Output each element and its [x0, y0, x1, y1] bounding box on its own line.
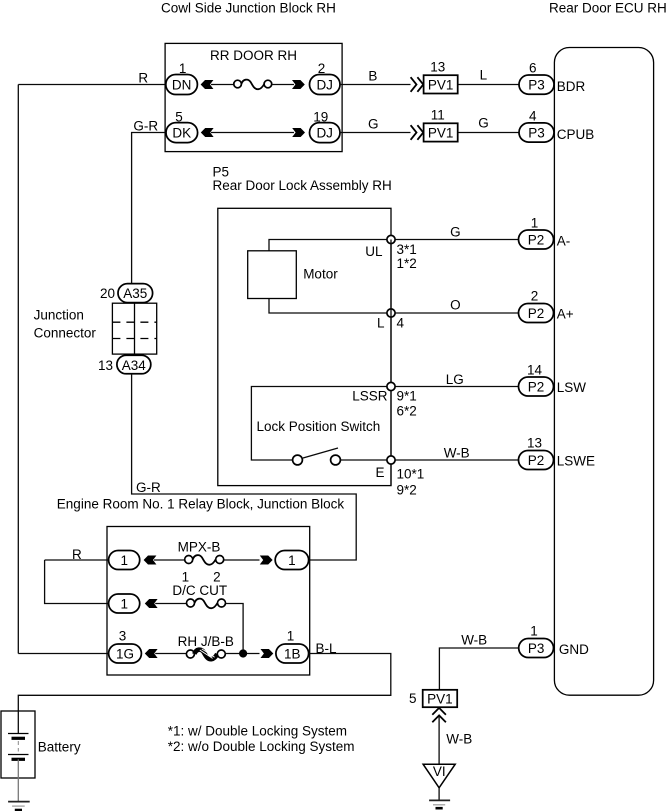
wire MPX-B left segment: [154, 559, 185, 561]
svg-text:6*2: 6*2: [397, 404, 417, 419]
connector DK: [166, 123, 198, 143]
wire DJ19 to PV1 (G): [340, 132, 411, 134]
svg-text:1: 1: [288, 553, 296, 568]
svg-text:P3: P3: [528, 126, 545, 141]
block P5 Rear Door Lock Assembly outline: [218, 208, 391, 485]
wire into MPX-B row from left: [45, 559, 109, 561]
svg-text:P5: P5: [213, 164, 230, 179]
wire DK to DJ row2: [211, 132, 294, 134]
battery plate thick 1: [12, 737, 26, 740]
svg-text:9*2: 9*2: [397, 483, 417, 498]
battery dashed center: [17, 741, 19, 752]
node L: [387, 309, 395, 317]
wire UL to P2 (G): [391, 239, 519, 241]
connector 1G: [109, 644, 142, 663]
battery top lead: [17, 711, 19, 734]
connector 1 MPX-B right: [275, 551, 308, 570]
connector DJ pin19: [310, 123, 341, 143]
svg-text:1: 1: [120, 553, 128, 568]
wire R loop vertical: [45, 560, 109, 604]
wire P5 right edge vertical: [390, 240, 392, 486]
fuse circle left D/C CUT: [187, 599, 195, 607]
svg-text:1*2: 1*2: [397, 256, 417, 271]
svg-text:DJ: DJ: [316, 126, 333, 141]
junction connector dashed row2: [112, 338, 156, 340]
svg-text:Junction: Junction: [34, 307, 84, 322]
svg-text:W-B: W-B: [444, 446, 470, 461]
fusible link white stripe 2: [202, 649, 215, 657]
wire W-B from P3 GND to PV1: [439, 648, 518, 690]
wire PV1 to P3 (G): [458, 132, 519, 134]
wire fusible link to junction dot: [225, 653, 259, 655]
svg-text:G: G: [478, 116, 489, 131]
svg-text:P2: P2: [528, 380, 545, 395]
motor M wires bottom: [269, 299, 391, 314]
svg-text:5: 5: [409, 691, 417, 706]
svg-text:Connector: Connector: [34, 325, 97, 340]
svg-text:Rear Door ECU RH: Rear Door ECU RH: [549, 0, 667, 15]
fuse wave (RR door row1): [241, 80, 264, 90]
svg-text:W-B: W-B: [461, 632, 487, 647]
svg-text:RH J/B-B: RH J/B-B: [178, 634, 234, 649]
switch lever: [303, 448, 338, 458]
connector P3 GND: [519, 639, 554, 658]
svg-text:1: 1: [120, 597, 128, 612]
wire left rail R vertical: [17, 85, 19, 654]
wire VI to ground: [438, 788, 440, 801]
block engine room relay outline: [107, 527, 310, 676]
svg-text:CPUB: CPUB: [557, 127, 595, 142]
splice chevrons before PV1 row1: [411, 77, 417, 92]
wire RH J/B-B left segment: [155, 653, 186, 655]
svg-text:D/C CUT: D/C CUT: [172, 583, 227, 598]
fusible link circle right: [217, 650, 225, 658]
wire PV1 to P3 (L): [458, 84, 519, 86]
wire DJ to PV1 (B): [340, 84, 411, 86]
svg-text:A35: A35: [123, 286, 147, 301]
svg-text:Motor: Motor: [303, 267, 338, 282]
svg-text:4: 4: [397, 316, 405, 331]
svg-text:14: 14: [527, 363, 543, 378]
svg-text:G: G: [450, 225, 461, 240]
svg-text:LG: LG: [446, 372, 464, 387]
switch contact circle right: [331, 455, 341, 465]
battery plate long 2: [8, 754, 29, 756]
svg-text:PV1: PV1: [427, 692, 453, 707]
svg-text:DJ: DJ: [316, 78, 333, 93]
arrowhead right at DJ row2: [292, 128, 305, 137]
svg-text:E: E: [375, 465, 384, 480]
svg-text:DK: DK: [172, 126, 191, 141]
wire L to P2 (O): [391, 312, 519, 314]
ground battery line 1: [8, 801, 30, 803]
svg-text:Battery: Battery: [38, 739, 81, 754]
battery plate thick 2: [12, 758, 26, 761]
connector DJ pin2: [310, 75, 341, 95]
node UL: [387, 235, 395, 243]
wire D/C CUT left segment: [155, 603, 186, 605]
svg-text:6: 6: [529, 61, 537, 76]
svg-text:RR DOOR RH: RR DOOR RH: [210, 48, 297, 63]
connector A35: [118, 284, 153, 303]
svg-text:1: 1: [531, 216, 539, 231]
fuse circle right MPX-B: [216, 556, 224, 564]
junction connector box: [112, 303, 156, 354]
svg-text:L: L: [377, 316, 385, 331]
lock position switch loop wire: [251, 387, 391, 461]
connector 1 MPX-B left: [109, 551, 140, 570]
junction connector center line: [134, 303, 136, 354]
svg-text:LSW: LSW: [557, 380, 587, 395]
svg-text:13: 13: [527, 436, 542, 451]
svg-text:P2: P2: [528, 306, 545, 321]
svg-text:A-: A-: [557, 234, 571, 249]
splice chevrons up below PV1: [432, 708, 446, 715]
arrowhead left RH J/B-B: [145, 649, 158, 658]
fuse wave D/C CUT: [195, 599, 218, 609]
svg-text:LSSR: LSSR: [352, 389, 388, 404]
fuse circle left MPX-B: [185, 556, 193, 564]
svg-text:9*1: 9*1: [397, 389, 417, 404]
svg-text:1: 1: [530, 624, 538, 639]
connector 1B: [276, 644, 309, 663]
svg-text:P3: P3: [528, 641, 545, 656]
fuse circle right (RR door row1): [264, 80, 272, 88]
connector 1 D/C CUT: [109, 594, 140, 613]
splice chevrons before PV1 row2: [411, 125, 417, 140]
svg-text:P3: P3: [528, 78, 545, 93]
wire fuse to arrow: [272, 84, 294, 86]
wire into 1G row from left rail: [18, 653, 108, 655]
svg-text:Cowl Side Junction Block RH: Cowl Side Junction Block RH: [161, 0, 336, 15]
fusible link white stripe 1: [200, 650, 213, 658]
connector P2 LSWE: [519, 451, 554, 470]
svg-text:P2: P2: [528, 453, 545, 468]
connector P2 LSW: [519, 377, 554, 396]
wire B-L from 1B to battery rail: [18, 654, 391, 712]
svg-text:20: 20: [100, 286, 115, 301]
fuse circle right D/C CUT: [218, 599, 226, 607]
svg-text:A34: A34: [122, 358, 147, 373]
connector A34: [117, 355, 151, 374]
ground triangle VI: [423, 764, 455, 788]
fusible link band: [194, 650, 217, 660]
svg-text:DN: DN: [172, 78, 192, 93]
svg-text:3*1: 3*1: [397, 242, 417, 257]
svg-text:P2: P2: [528, 233, 545, 248]
junction connector dashed row1: [112, 321, 156, 323]
connector DN: [166, 75, 198, 95]
svg-text:LSWE: LSWE: [557, 454, 595, 469]
svg-text:W-B: W-B: [446, 732, 472, 747]
arrowhead right at DJ: [292, 80, 305, 89]
svg-text:O: O: [450, 298, 461, 313]
svg-text:B: B: [368, 69, 377, 84]
svg-text:PV1: PV1: [428, 77, 454, 92]
wire DN to fuse: [211, 84, 234, 86]
svg-text:1B: 1B: [284, 647, 301, 662]
svg-text:G: G: [368, 117, 379, 132]
arrowhead left D/C CUT: [145, 599, 158, 608]
wire switch to node E: [340, 459, 391, 461]
svg-text:G-R: G-R: [133, 118, 158, 133]
svg-text:*1: w/ Double Locking System: *1: w/ Double Locking System: [168, 723, 347, 738]
arrowhead right MPX-B: [260, 556, 273, 565]
svg-text:MPX-B: MPX-B: [178, 539, 221, 554]
switch contact circle left: [293, 455, 303, 465]
connector P3 pin4: [519, 123, 554, 142]
svg-text:13: 13: [98, 358, 113, 373]
connector P2 A-: [519, 230, 554, 249]
svg-text:L: L: [480, 68, 488, 83]
connector PV1 bottom: [423, 690, 458, 707]
ground battery line 3: [15, 809, 22, 811]
wire G-R from A34 down: [132, 374, 357, 560]
ECU block Rear Door ECU RH outline: [554, 48, 653, 696]
wire LSSR to P2 (LG): [391, 386, 519, 388]
connector PV1 row1: [424, 75, 458, 93]
svg-text:UL: UL: [365, 244, 383, 259]
svg-text:G-R: G-R: [136, 480, 161, 495]
svg-text:Engine Room No. 1 Relay Block,: Engine Room No. 1 Relay Block, Junction …: [57, 496, 345, 511]
node LSSR: [387, 382, 395, 390]
battery bottom lead: [17, 759, 19, 801]
svg-text:GND: GND: [559, 642, 589, 657]
wire D/C CUT to junction: [226, 604, 244, 654]
svg-text:BDR: BDR: [557, 79, 586, 94]
svg-text:10*1: 10*1: [397, 467, 425, 482]
block RR DOOR RH outline: [165, 43, 342, 151]
connector P3 pin6: [519, 75, 554, 94]
svg-text:3: 3: [119, 628, 127, 643]
svg-text:PV1: PV1: [428, 125, 454, 140]
svg-text:R: R: [72, 547, 82, 562]
connector P2 A+: [519, 304, 554, 323]
battery BAT box: [1, 711, 35, 778]
wire R from DN to left rail: [18, 84, 166, 86]
svg-text:Rear Door Lock Assembly RH: Rear Door Lock Assembly RH: [213, 178, 392, 193]
junction dot: [239, 649, 247, 657]
svg-text:13: 13: [430, 60, 445, 75]
svg-text:VI: VI: [433, 764, 446, 779]
svg-text:11: 11: [431, 108, 445, 123]
svg-text:1: 1: [287, 628, 295, 643]
ground battery line 2: [12, 805, 25, 807]
ground VI line 2: [433, 804, 445, 806]
node E: [387, 456, 395, 464]
wire MPX-B right segment: [224, 559, 260, 561]
arrowhead right RH J/B-B: [261, 649, 274, 658]
battery plate long 1: [8, 733, 29, 735]
svg-text:A+: A+: [557, 307, 574, 322]
motor M body: [248, 251, 297, 299]
svg-text:1G: 1G: [116, 647, 134, 662]
svg-text:2: 2: [531, 289, 539, 304]
ground VI line 1: [429, 799, 450, 801]
arrowhead left MPX-B: [144, 556, 157, 565]
arrowhead left at DK: [201, 128, 214, 137]
svg-text:R: R: [138, 71, 148, 86]
connector PV1 row2: [424, 123, 458, 141]
motor M wires top: [269, 240, 391, 251]
svg-text:4: 4: [529, 109, 537, 124]
wire W-B vertical to VI: [438, 717, 440, 765]
svg-text:Lock Position Switch: Lock Position Switch: [257, 419, 381, 434]
wire G-R from DK to left: [132, 133, 166, 284]
svg-text:*2: w/o Double Locking System: *2: w/o Double Locking System: [168, 739, 355, 754]
fuse circle left (RR door row1): [234, 80, 242, 88]
arrowhead left at DN: [201, 80, 214, 89]
ground VI line 3: [436, 807, 443, 810]
fusible link circle left: [186, 650, 194, 658]
wire E to P2 (W-B): [391, 459, 519, 461]
fuse wave MPX-B: [193, 555, 216, 565]
